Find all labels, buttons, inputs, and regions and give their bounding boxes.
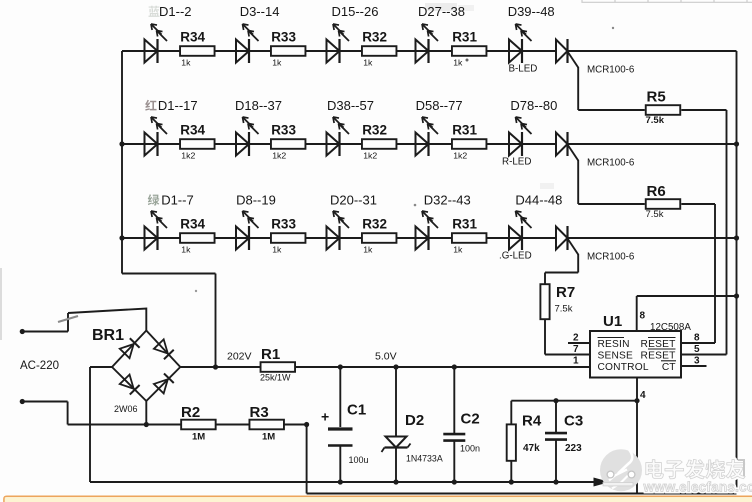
svg-text:1k: 1k — [453, 58, 463, 68]
svg-text:RESET: RESET — [641, 339, 676, 350]
svg-text:C1: C1 — [347, 402, 366, 419]
svg-text:D2: D2 — [405, 412, 424, 429]
svg-text:47k: 47k — [523, 443, 540, 454]
svg-text:223: 223 — [565, 443, 582, 454]
svg-text:R31: R31 — [452, 217, 477, 232]
svg-text:B-LED: B-LED — [509, 64, 538, 75]
svg-text:1N4733A: 1N4733A — [406, 454, 443, 464]
svg-text:SENSE: SENSE — [598, 351, 634, 362]
svg-text:R33: R33 — [271, 217, 296, 232]
svg-text:MCR100-6: MCR100-6 — [587, 158, 635, 169]
svg-text:7.5k: 7.5k — [555, 304, 573, 315]
svg-text:R34: R34 — [180, 30, 205, 45]
svg-text:D39--48: D39--48 — [508, 4, 555, 19]
svg-text:R31: R31 — [452, 30, 477, 45]
svg-text:2W06: 2W06 — [114, 404, 138, 414]
svg-text:CT: CT — [662, 362, 676, 373]
svg-text:R7: R7 — [556, 284, 575, 301]
svg-text:1k: 1k — [181, 245, 191, 255]
svg-text:4: 4 — [640, 390, 646, 401]
svg-text:C3: C3 — [564, 413, 583, 430]
svg-text:R4: R4 — [522, 413, 542, 430]
svg-text:8: 8 — [640, 311, 646, 322]
svg-text:25k/1W: 25k/1W — [260, 373, 291, 383]
svg-text:1k2: 1k2 — [181, 151, 195, 161]
svg-text:R33: R33 — [271, 30, 296, 45]
svg-text:7.5k: 7.5k — [646, 115, 665, 126]
svg-text:R31: R31 — [452, 123, 477, 138]
svg-text:1M: 1M — [262, 432, 275, 443]
svg-text:R3: R3 — [250, 404, 269, 421]
svg-text:D32--43: D32--43 — [424, 193, 471, 208]
svg-text:1k: 1k — [453, 245, 463, 255]
svg-text:2: 2 — [573, 333, 579, 344]
svg-text:1k2: 1k2 — [272, 151, 286, 161]
svg-text:C2: C2 — [461, 411, 480, 428]
svg-text:R6: R6 — [647, 183, 666, 200]
svg-text:AC-220: AC-220 — [20, 360, 59, 372]
svg-text:R33: R33 — [271, 123, 296, 138]
svg-text:1k: 1k — [363, 58, 373, 68]
svg-text:R2: R2 — [181, 404, 200, 421]
svg-text:D1--2: D1--2 — [159, 4, 192, 19]
svg-text:R1: R1 — [261, 346, 280, 363]
svg-text:R34: R34 — [180, 123, 205, 138]
svg-text:7: 7 — [573, 344, 579, 355]
svg-text:7.5k: 7.5k — [646, 209, 664, 220]
svg-text:D1--7: D1--7 — [161, 193, 194, 208]
svg-text:1k: 1k — [272, 245, 282, 255]
svg-text:D8--19: D8--19 — [236, 193, 276, 208]
svg-text:D15--26: D15--26 — [332, 4, 379, 19]
svg-text:8: 8 — [694, 333, 700, 344]
svg-text:MCR100-6: MCR100-6 — [587, 65, 635, 76]
svg-text:100u: 100u — [349, 455, 369, 465]
svg-text:D3--14: D3--14 — [240, 4, 280, 19]
svg-text:D27--38: D27--38 — [418, 4, 465, 19]
svg-text:CONTROL: CONTROL — [598, 362, 649, 373]
svg-text:D38--57: D38--57 — [327, 98, 374, 113]
svg-text:1M: 1M — [192, 432, 205, 443]
svg-text:1k: 1k — [363, 245, 373, 255]
svg-text:202V: 202V — [227, 351, 252, 363]
svg-text:100n: 100n — [460, 444, 480, 454]
svg-text:+: + — [321, 409, 329, 425]
svg-text:BR1: BR1 — [92, 327, 124, 344]
svg-text:D78--80: D78--80 — [510, 98, 557, 113]
svg-text:1k: 1k — [272, 58, 282, 68]
svg-text:1k2: 1k2 — [363, 151, 377, 161]
svg-text:3: 3 — [694, 356, 700, 367]
svg-text:5.0V: 5.0V — [375, 351, 397, 363]
svg-text:D20--31: D20--31 — [330, 193, 377, 208]
svg-text:R-LED: R-LED — [502, 157, 531, 168]
svg-text:1: 1 — [573, 356, 579, 367]
svg-text:5: 5 — [694, 344, 700, 355]
svg-text:R34: R34 — [180, 217, 205, 232]
svg-text:12C508A: 12C508A — [650, 322, 691, 333]
svg-text:R32: R32 — [362, 217, 387, 232]
svg-text:.G-LED: .G-LED — [499, 251, 532, 262]
svg-text:MCR100-6: MCR100-6 — [587, 252, 635, 263]
svg-text:R32: R32 — [362, 123, 387, 138]
svg-text:D18--37: D18--37 — [235, 98, 282, 113]
svg-text:R32: R32 — [362, 30, 387, 45]
svg-text:1k2: 1k2 — [453, 151, 467, 161]
svg-text:www.elecfans.com: www.elecfans.com — [643, 480, 752, 495]
svg-text:RESIN: RESIN — [598, 339, 630, 350]
svg-text:D58--77: D58--77 — [416, 98, 463, 113]
svg-text:RESET: RESET — [641, 351, 676, 362]
svg-text:D44--48: D44--48 — [515, 193, 562, 208]
svg-text:R5: R5 — [647, 89, 666, 106]
svg-text:U1: U1 — [603, 313, 622, 330]
svg-text:D1--17: D1--17 — [158, 98, 198, 113]
svg-text:1k: 1k — [181, 58, 191, 68]
